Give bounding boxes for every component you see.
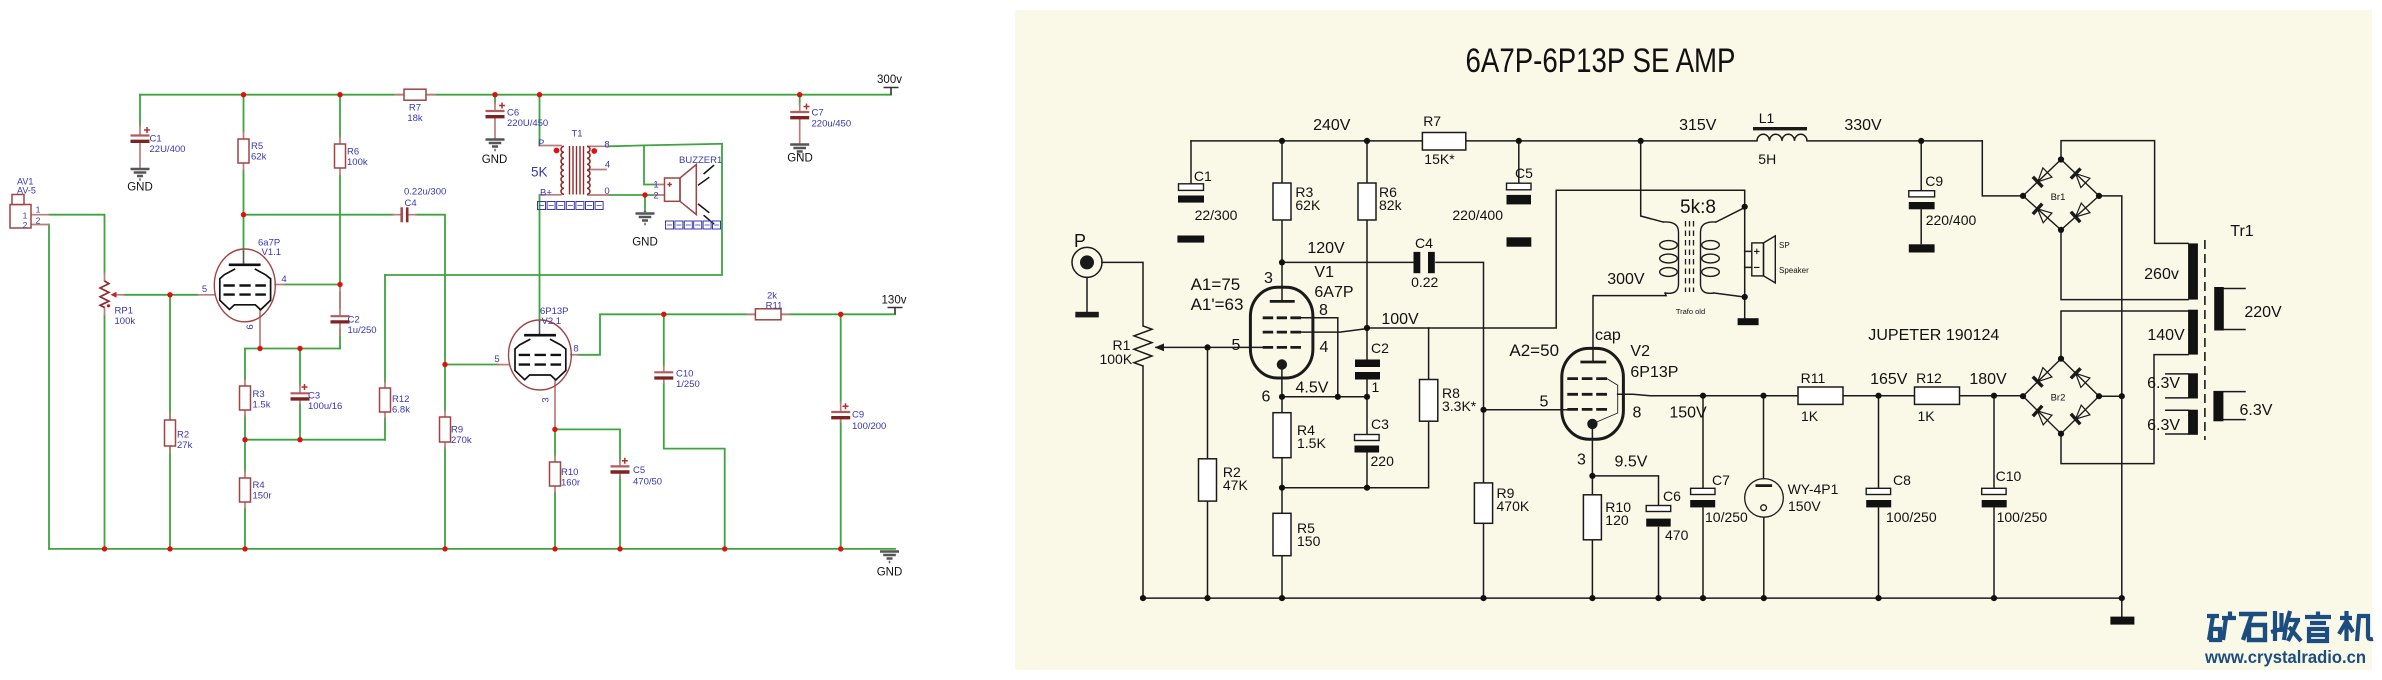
wire R9 stubs — [444, 411, 446, 448]
ground symbol (bottom right) — [880, 552, 899, 563]
wire R7 stubs — [395, 94, 435, 96]
wire R4 column — [244, 440, 246, 549]
wire R2 stubs — [169, 414, 171, 452]
resistor R10 120 — [1583, 495, 1601, 540]
wire C2 column — [1366, 328, 1368, 397]
wire C3 column — [1366, 397, 1368, 488]
svg-text:Br2: Br2 — [2051, 393, 2066, 404]
right junction dots — [1140, 138, 2125, 601]
svg-text:240V: 240V — [1313, 117, 1351, 134]
logo char ji — [2339, 611, 2373, 641]
svg-text:220U/450: 220U/450 — [507, 118, 548, 129]
svg-text:C7: C7 — [812, 108, 824, 119]
svg-text:A1'=63: A1'=63 — [1191, 295, 1244, 314]
bridge rectifier Br2 — [2023, 359, 2099, 434]
wire WY-4P1 column — [1763, 396, 1765, 598]
wire R10 column — [554, 429, 556, 549]
svg-text:47K: 47K — [1223, 477, 1249, 493]
capacitor C5 470/50 — [611, 465, 630, 467]
wire R4 stubs — [244, 472, 246, 508]
wire V2 pin8 stub — [571, 354, 578, 356]
wire R5 bottom to grid node — [243, 170, 245, 215]
resistor R7 18k — [404, 89, 426, 100]
wire V2 pin5 — [1484, 409, 1568, 411]
wire R9 column — [444, 365, 446, 549]
svg-text:315V: 315V — [1679, 117, 1717, 134]
power flag 300v — [884, 88, 899, 95]
resistor R2 27k — [165, 420, 176, 446]
wire Tr1 6.3V right leads — [2224, 392, 2245, 420]
svg-text:1K: 1K — [1918, 408, 1936, 424]
wire R3 column — [1281, 141, 1283, 263]
left resistors — [10, 89, 781, 502]
svg-text:270k: 270k — [451, 435, 472, 446]
svg-text:100/250: 100/250 — [1997, 509, 2048, 525]
resistor R10 160r — [550, 462, 561, 486]
wire C3 column — [299, 349, 301, 440]
svg-text:P: P — [538, 138, 544, 149]
svg-text:C4: C4 — [1415, 235, 1433, 251]
svg-text:22U/400: 22U/400 — [150, 144, 186, 155]
resistor R8 3.3K* — [1420, 380, 1438, 422]
capacitor C10 1/250 — [654, 371, 673, 373]
wire Br2 bottom lead — [2061, 355, 2188, 464]
resistor R4 150r — [240, 478, 251, 502]
wire OPT primary bottom 300V — [1593, 293, 1666, 362]
svg-text:5: 5 — [202, 284, 207, 295]
resistor R3 62K — [1273, 183, 1291, 220]
svg-text:C9: C9 — [1925, 173, 1943, 189]
wire Tr1 220V leads — [2224, 289, 2245, 330]
svg-text:Tr1: Tr1 — [2230, 223, 2254, 240]
wire T1 B+ to V2 plate — [539, 195, 541, 321]
T1 primary coil — [561, 146, 564, 194]
wire R8 top — [1428, 328, 1430, 380]
resistor R9 270k — [440, 417, 451, 442]
wire R6 column — [1366, 141, 1368, 328]
wire grid cap stem — [243, 215, 245, 251]
svg-text:300v: 300v — [877, 74, 902, 86]
wire C10 column — [664, 314, 725, 549]
wire V2 pin5 stub — [498, 364, 508, 366]
wire Br1 right to ground bus — [2099, 196, 2122, 598]
svg-text:0: 0 — [604, 186, 609, 197]
svg-text:6.3V: 6.3V — [2147, 417, 2180, 434]
svg-text:220/400: 220/400 — [1926, 212, 1977, 228]
capacitor C3 100u/16 — [291, 392, 310, 394]
wire R3 C3 R12 bus — [245, 439, 385, 441]
svg-text:220V: 220V — [2244, 304, 2282, 321]
wire C7 stubs — [799, 104, 801, 143]
svg-text:C1: C1 — [1194, 168, 1212, 184]
T1 secondary coil — [587, 146, 590, 194]
svg-text:A1=75: A1=75 — [1191, 275, 1241, 294]
svg-text:R11: R11 — [766, 301, 783, 312]
svg-text:10/250: 10/250 — [1705, 509, 1748, 525]
wire Tr1 6.3V leads — [2166, 374, 2188, 434]
wire 315V drop to OPT primary — [1641, 141, 1663, 222]
wire speaker ground — [1744, 297, 1746, 318]
wire V1 cathode bus — [245, 348, 340, 350]
wire 120V wire to C4 — [1282, 261, 1414, 263]
svg-text:L1: L1 — [1759, 110, 1775, 126]
wire P jack to R1 — [1102, 262, 1143, 326]
wire R10 stubs — [554, 456, 556, 492]
svg-text:6: 6 — [1262, 389, 1271, 406]
svg-text:160r: 160r — [561, 478, 580, 489]
svg-text:100/200: 100/200 — [852, 421, 886, 432]
svg-text:V1.1: V1.1 — [262, 247, 282, 258]
wire C7 drop — [799, 95, 801, 104]
transformer Tr1 windings — [2188, 243, 2224, 434]
ground symbol (C1) — [131, 169, 150, 180]
svg-text:3: 3 — [1264, 270, 1273, 287]
svg-text:R4: R4 — [253, 480, 265, 491]
svg-text:2: 2 — [36, 216, 41, 226]
svg-text:T1: T1 — [571, 129, 582, 140]
wire C10 stubs — [663, 366, 665, 383]
svg-text:R3: R3 — [253, 389, 265, 400]
svg-text:470K: 470K — [1497, 498, 1530, 514]
wire C3 stubs — [299, 385, 301, 404]
ground bar speaker — [1738, 318, 1759, 325]
svg-text:3.3K*: 3.3K* — [1442, 398, 1477, 414]
svg-text:18k: 18k — [407, 113, 423, 124]
ground symbol (C7) — [790, 145, 809, 156]
bridge rectifier Br1 — [2023, 160, 2099, 230]
svg-text:120: 120 — [1605, 512, 1629, 528]
svg-text:JUPETER 190124: JUPETER 190124 — [1868, 327, 1999, 344]
resistor R4 1.5K — [1273, 413, 1291, 458]
potentiometer R1 100K — [1134, 326, 1152, 366]
svg-text:8: 8 — [1633, 405, 1642, 422]
wire R1 bottom — [1142, 366, 1144, 598]
svg-text:150V: 150V — [1669, 405, 1707, 422]
wire 100V feedback to OPT — [1367, 190, 1745, 328]
power flag 130v — [888, 308, 903, 315]
wire C10 column — [1993, 396, 1995, 598]
wire OPT secondary bottom — [1714, 293, 1745, 297]
right panel cream background — [1015, 10, 2372, 670]
wire V2 cathode stem — [1591, 428, 1593, 476]
vacuum tube V1 6A7P (right) — [1250, 287, 1313, 397]
svg-text:22/300: 22/300 — [1195, 207, 1238, 223]
capacitor C4 0.22u/300 — [400, 207, 403, 222]
wire C1 stub — [139, 126, 141, 168]
Tr1 140V winding — [2188, 310, 2198, 355]
wire C5 stubs — [619, 460, 621, 477]
svg-text:330V: 330V — [1844, 117, 1882, 134]
capacitor C1 22/300 — [1179, 184, 1204, 191]
wire T1 terminal stubs — [540, 146, 610, 196]
svg-text:Br1: Br1 — [2051, 192, 2066, 203]
vacuum tube V2 6P13P — [509, 320, 572, 390]
wire RP1 wiper to V1 pin5 — [124, 294, 198, 296]
wire C8 column — [1878, 396, 1880, 598]
svg-text:5: 5 — [1232, 337, 1241, 354]
wire Br1 bottom lead — [2061, 230, 2188, 300]
wire OPT secondary top — [1716, 208, 1745, 223]
wire C9 stubs — [840, 402, 842, 422]
resistor R5 62k — [238, 139, 249, 163]
wire R12 stubs — [384, 382, 386, 418]
svg-text:C6: C6 — [507, 108, 519, 119]
Tr1 6.3V winding B — [2188, 410, 2198, 435]
svg-text:6.3V: 6.3V — [2240, 402, 2273, 419]
resistor R9 470K — [1474, 483, 1492, 523]
svg-text:2: 2 — [23, 220, 28, 230]
Tr1 6.3V secondary winding — [2213, 391, 2223, 421]
svg-text:8: 8 — [604, 140, 609, 151]
svg-text:150V: 150V — [1788, 498, 1821, 514]
wire R6 column top — [339, 95, 341, 137]
wire V1 grid stem — [1281, 262, 1283, 301]
svg-text:62k: 62k — [251, 152, 267, 163]
svg-text:R7: R7 — [409, 103, 421, 114]
svg-text:C10: C10 — [676, 369, 693, 380]
svg-text:C10: C10 — [1996, 468, 2022, 484]
wire rail to Br1 — [1982, 141, 2023, 196]
wire R2 column — [1207, 347, 1209, 598]
svg-text:1: 1 — [653, 180, 658, 191]
svg-text:R7: R7 — [1423, 113, 1441, 129]
speaker SP — [1752, 236, 1776, 283]
svg-text:0.22: 0.22 — [1411, 274, 1438, 290]
svg-text:1K: 1K — [1801, 408, 1819, 424]
svg-text:Speaker: Speaker — [1779, 266, 1809, 275]
svg-text:6A7P-6P13P SE AMP: 6A7P-6P13P SE AMP — [1466, 42, 1736, 80]
T1 phase dots — [554, 148, 560, 154]
svg-text:R12: R12 — [392, 394, 409, 405]
svg-text:R12: R12 — [1916, 370, 1942, 386]
left electrolytic capacitors — [131, 103, 851, 473]
wire C4 to R9 column — [1436, 262, 1484, 409]
capacitor C10 100/250 — [1982, 488, 2006, 494]
svg-text:1: 1 — [23, 211, 28, 221]
svg-text:165V: 165V — [1870, 371, 1908, 388]
svg-text:100V: 100V — [1381, 311, 1419, 328]
wire C4 right to V2 pin5 node — [416, 215, 445, 365]
svg-text:R10: R10 — [561, 467, 578, 478]
logo char shi — [2239, 614, 2267, 640]
output transformer 5k:8 — [1660, 221, 1720, 293]
wire T1 secondary 0 to buzzer pin2 — [609, 194, 655, 196]
svg-text:R11: R11 — [1801, 370, 1826, 386]
T1 output transformer — [561, 146, 590, 195]
Tr1 6.3V winding A — [2188, 373, 2198, 398]
wire R11 stubs — [747, 313, 789, 315]
svg-text:100k: 100k — [115, 316, 136, 327]
right capacitors — [1177, 183, 2134, 624]
svg-text:C5: C5 — [633, 465, 645, 476]
capacitor C8 100/250 — [1866, 488, 1890, 494]
wire pin5 node to V2 — [445, 364, 498, 366]
svg-text:6.3V: 6.3V — [2147, 375, 2180, 392]
logo char yin — [2305, 612, 2331, 642]
connector AV1 body — [10, 205, 31, 229]
wire V2 pin3 node to C5 — [555, 429, 620, 460]
wire V2 pin8 to R11 rail — [578, 314, 895, 355]
wire V1 pin6 stem — [259, 310, 261, 349]
svg-text:1: 1 — [36, 205, 41, 215]
resistor R11 2k — [755, 309, 781, 320]
svg-text:1.5k: 1.5k — [253, 400, 271, 411]
svg-text:C2: C2 — [1371, 340, 1389, 356]
svg-text:8: 8 — [1319, 302, 1328, 319]
resistor R7 15K* — [1422, 133, 1465, 151]
svg-text:B+: B+ — [540, 188, 552, 199]
wire bottom ground rail — [49, 548, 895, 550]
wire R5 column — [1281, 488, 1283, 598]
Tr1 260v winding — [2188, 243, 2198, 299]
svg-text:6: 6 — [245, 324, 256, 329]
svg-text:82k: 82k — [1379, 197, 1403, 213]
capacitor C3 220 — [1355, 435, 1380, 441]
svg-text:180V: 180V — [1969, 371, 2007, 388]
svg-text:www.crystalradio.cn: www.crystalradio.cn — [2204, 647, 2366, 667]
wire bottom ground rail — [1143, 597, 2122, 599]
ground symbol (speaker) — [636, 211, 655, 224]
speaker BUZZER1 — [665, 165, 697, 215]
right schematic labels — [1074, 42, 2282, 549]
wire V1 pin5 stub — [198, 294, 215, 296]
Tr1 core dashed line — [2204, 240, 2206, 440]
wire T1 primary drop — [539, 95, 541, 146]
svg-text:8: 8 — [573, 344, 578, 355]
vacuum tube V1 6a7P — [214, 249, 275, 322]
wire R3 stubs — [244, 380, 246, 416]
wire 9.5V to C6 — [1592, 476, 1658, 506]
svg-text:cap: cap — [1595, 327, 1621, 344]
wire 300v top rail — [140, 94, 891, 96]
wire C5 bottom — [619, 477, 621, 549]
svg-text:3: 3 — [1577, 452, 1586, 469]
svg-text:GND: GND — [787, 153, 813, 165]
svg-text:5H: 5H — [1758, 151, 1776, 167]
capacitor C6 220U/450 — [486, 110, 505, 112]
wire C6 stubs — [494, 103, 496, 138]
left schematic labels — [17, 103, 886, 502]
svg-text:GND: GND — [482, 154, 508, 166]
svg-text:1/250: 1/250 — [676, 379, 700, 390]
capacitor C7 220u/450 — [790, 111, 809, 113]
wire 150V to R11 R12 180V — [1843, 395, 2023, 397]
resistor R12 1K — [1915, 387, 1960, 404]
wire V2 pin8 to 150V — [1618, 394, 1798, 395]
wire R1 wiper to V1 pin5 — [1156, 346, 1263, 348]
ground symbol (C6) — [486, 140, 505, 151]
svg-text:R5: R5 — [251, 141, 263, 152]
svg-text:5: 5 — [494, 354, 499, 365]
logo char shou — [2271, 611, 2301, 641]
capacitor C6 470 — [1646, 506, 1671, 512]
wire Br1 top lead — [2061, 141, 2188, 244]
vacuum tube V2 6P13P (right) — [1562, 348, 1624, 439]
label speaker chinese — [666, 221, 721, 229]
svg-text:1u/250: 1u/250 — [348, 325, 377, 336]
svg-text:120V: 120V — [1307, 240, 1345, 257]
right resistors — [1199, 133, 1960, 556]
wire C6 drop — [494, 95, 496, 103]
resistor R6 82k — [1358, 183, 1376, 220]
svg-text:150: 150 — [1297, 533, 1321, 549]
Br1 diodes — [2033, 167, 2090, 223]
svg-text:R2: R2 — [177, 430, 189, 441]
wire buzzer pin stubs — [655, 185, 665, 196]
svg-text:6P13P: 6P13P — [1630, 364, 1678, 381]
svg-text:0.22u/300: 0.22u/300 — [404, 187, 446, 198]
svg-text:27k: 27k — [177, 440, 193, 451]
wire V1 pin4 stub — [275, 284, 284, 286]
svg-text:6.8k: 6.8k — [392, 405, 410, 416]
wire C1 drop — [139, 95, 141, 126]
svg-text:6A7P: 6A7P — [1314, 284, 1353, 301]
svg-text:130v: 130v — [882, 295, 907, 307]
svg-text:C8: C8 — [1893, 472, 1911, 488]
wire R3 column — [244, 349, 246, 440]
svg-text:9.5V: 9.5V — [1615, 454, 1648, 471]
svg-text:C4: C4 — [405, 198, 417, 209]
wire buzzer gnd drop — [644, 195, 646, 211]
label transformer chinese — [538, 202, 604, 210]
resistor R11 1K — [1798, 387, 1843, 404]
wire AV1 pin stubs — [31, 215, 49, 225]
svg-text:4: 4 — [1320, 339, 1329, 356]
resistor R6 100k — [335, 144, 346, 168]
wire feedback bus y275 — [385, 144, 722, 275]
wire R9 to rail — [1483, 410, 1485, 598]
svg-text:100k: 100k — [347, 157, 368, 168]
wire R10 column — [1591, 476, 1593, 598]
wire R8 bottom bus — [1282, 421, 1429, 488]
left serif labels — [127, 74, 906, 579]
Tr1 220V winding — [2214, 287, 2224, 331]
wire R6 bottom to pin4 node — [339, 175, 341, 285]
wire buzzer pin1 drop — [644, 145, 656, 184]
svg-text:100K: 100K — [1099, 351, 1132, 367]
wire C9 drop — [1920, 141, 1922, 244]
svg-text:A2=50: A2=50 — [1509, 341, 1559, 360]
wire C4 stubs — [393, 214, 416, 216]
svg-text:220/400: 220/400 — [1452, 207, 1503, 223]
wire RP1 bottom to rail — [104, 315, 106, 549]
svg-text:150r: 150r — [253, 491, 272, 502]
svg-text:GND: GND — [127, 182, 153, 194]
T1 core — [570, 146, 584, 195]
ground bar main — [2110, 617, 2134, 625]
svg-text:4: 4 — [281, 274, 286, 285]
svg-text:C3: C3 — [308, 391, 320, 402]
resistor R2 47K — [1199, 459, 1217, 501]
wire speaker bus — [1744, 207, 1746, 297]
wire C6 bottom — [1658, 528, 1660, 599]
svg-text:5k:8: 5k:8 — [1680, 197, 1716, 218]
svg-text:V2.1: V2.1 — [542, 316, 562, 327]
svg-text:C2: C2 — [348, 315, 360, 326]
svg-text:SP: SP — [1779, 241, 1790, 250]
wire AV1 pin1 to RP1 — [49, 215, 105, 273]
svg-text:3: 3 — [541, 397, 552, 402]
svg-text:BUZZER1: BUZZER1 — [679, 155, 722, 166]
wire grid node to C4 — [244, 214, 394, 216]
resistor R3 1.5k — [240, 386, 251, 410]
svg-text:C6: C6 — [1663, 488, 1681, 504]
wire V1 pin8 drop — [1301, 318, 1338, 397]
RP1 wiper arrow — [111, 292, 117, 298]
resistor R5 150 — [1273, 513, 1291, 555]
wire 240V top rail — [1191, 140, 1982, 142]
svg-text:WY-4P1: WY-4P1 — [1788, 481, 1839, 497]
